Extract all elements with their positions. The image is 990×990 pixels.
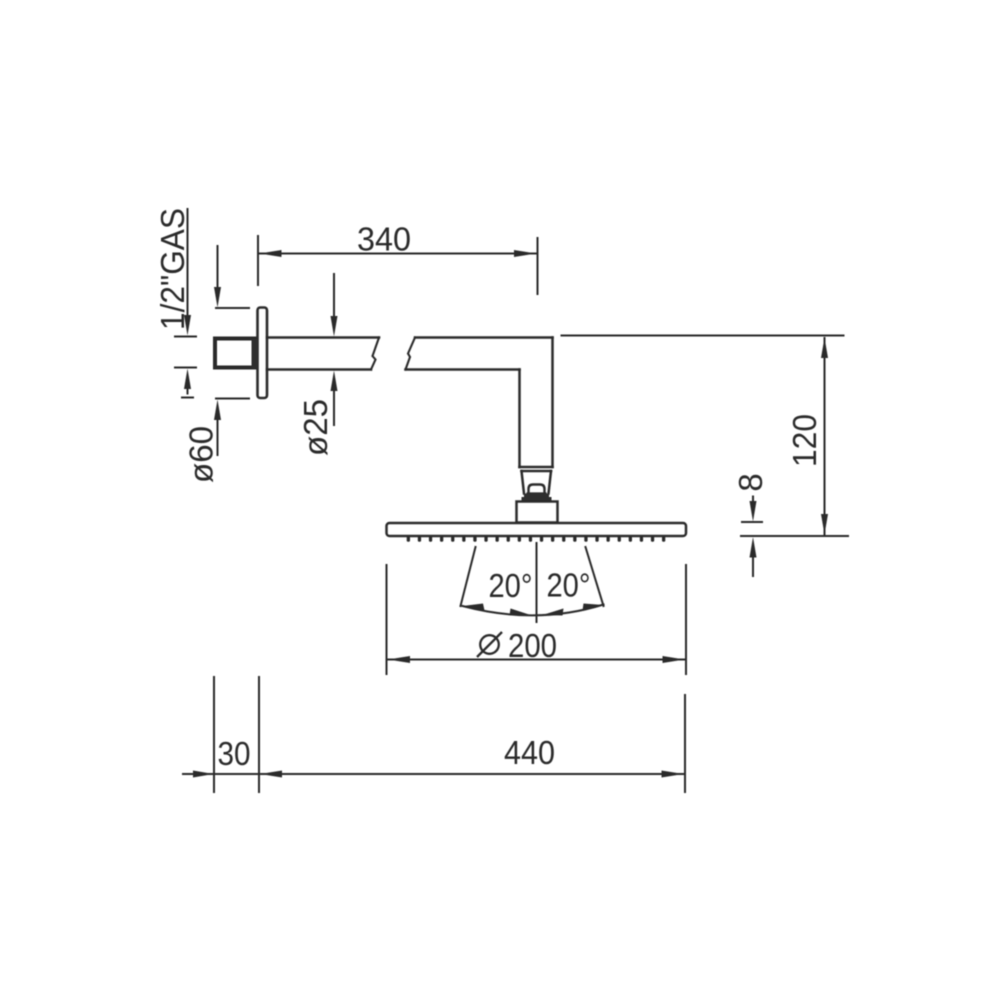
dimension ø60 lower arrow	[214, 400, 221, 421]
arm segment 2 bottom line	[406, 368, 520, 371]
dimension 120 extension line bottom	[741, 535, 848, 537]
connector shoulder line	[520, 466, 553, 469]
spray left boundary line	[461, 547, 476, 606]
dimension ø60 upper arrow	[217, 246, 219, 289]
dimension 340 extension line right	[537, 238, 539, 294]
arc arrow left end	[463, 604, 485, 611]
dimension 8 lower arrow	[750, 537, 757, 558]
1/2 GAS end dash	[182, 397, 193, 399]
connector nut left side	[522, 471, 525, 494]
dimension ø200 extension left	[386, 565, 388, 674]
bottom extension line flange face	[258, 677, 260, 792]
dimension ø60 lower extension	[216, 398, 249, 400]
dark washer band upper	[524, 494, 549, 499]
dimension 440 arrow left	[260, 771, 282, 778]
svg-text:20°: 20°	[547, 567, 591, 604]
dimension 8 upper tick	[742, 521, 762, 523]
1/2 GAS tick lower	[175, 367, 196, 369]
arm segment 1 bottom line	[267, 368, 371, 371]
spray angle arc	[463, 605, 604, 616]
arm segment 2 top line	[415, 336, 553, 339]
dimension 30/440 line	[183, 773, 684, 775]
diameter symbol for 200	[477, 632, 502, 657]
connector knob	[529, 485, 545, 495]
dimension ø25 upper arrow	[333, 274, 335, 317]
dimension ø200 arrow right	[663, 656, 685, 663]
arc arrow left of center	[510, 609, 531, 616]
dimension ø200 extension right	[685, 565, 687, 674]
1/2 GAS leader line with arrow down	[187, 209, 189, 316]
svg-text:8: 8	[732, 473, 769, 491]
dimension 120 arrow bottom	[821, 514, 828, 535]
dimension 120 line	[824, 338, 826, 534]
dimension 440 arrow right	[662, 771, 684, 778]
dimension 120 arrow top	[821, 338, 828, 359]
dimension 340 arrow left	[260, 250, 282, 257]
arm break edge left	[371, 338, 379, 370]
dimension 30 outside arrow	[193, 771, 214, 778]
svg-text:120: 120	[786, 414, 823, 467]
arm break edge right	[406, 338, 416, 370]
dimension ø60 upper extension	[216, 307, 249, 309]
1/2 GAS tick upper	[175, 336, 196, 338]
svg-text:ø25: ø25	[297, 399, 334, 456]
dimension ø25 lower arrow	[331, 371, 338, 392]
dimension 340 extension line left	[257, 236, 259, 285]
head mounting block	[517, 502, 558, 523]
arc arrow right end	[583, 604, 604, 611]
svg-text:440: 440	[504, 734, 555, 771]
dark washer band lower	[522, 497, 552, 502]
connector nut upper edge	[522, 470, 552, 473]
dimension 340 arrow right	[514, 250, 536, 257]
vertical arm inner edge	[518, 370, 521, 468]
bottom extension line right	[684, 695, 686, 792]
1/2 GAS arrow up below	[184, 369, 191, 390]
threaded nipple 1/2" GAS	[215, 339, 255, 368]
arm segment 1 top line	[267, 336, 379, 339]
dimension 8 upper arrow	[752, 497, 754, 504]
svg-text:340: 340	[357, 221, 411, 258]
dark ring between nipple and flange	[252, 339, 259, 368]
connector knob base line	[528, 492, 546, 494]
spray right boundary line	[586, 547, 604, 606]
nozzle teeth row	[407, 537, 666, 542]
svg-text:1/2"GAS: 1/2"GAS	[154, 208, 191, 330]
svg-text:30: 30	[218, 735, 251, 772]
svg-text:200: 200	[508, 627, 557, 664]
vertical arm outer edge	[551, 338, 554, 468]
dimension 120 extension line top	[562, 335, 844, 337]
dimension ø200 line	[388, 659, 685, 661]
wall flange (ø60 escutcheon)	[258, 308, 268, 399]
dimension 340 line	[260, 253, 537, 255]
shower head disc	[387, 523, 687, 536]
svg-text:ø60: ø60	[183, 426, 220, 483]
svg-text:20°: 20°	[489, 567, 533, 604]
dimension ø200 arrow left	[388, 656, 410, 663]
spray center line	[536, 543, 538, 622]
bottom extension line wall	[213, 677, 215, 792]
connector nut right side	[549, 471, 552, 494]
arc arrow right of center	[543, 609, 564, 616]
